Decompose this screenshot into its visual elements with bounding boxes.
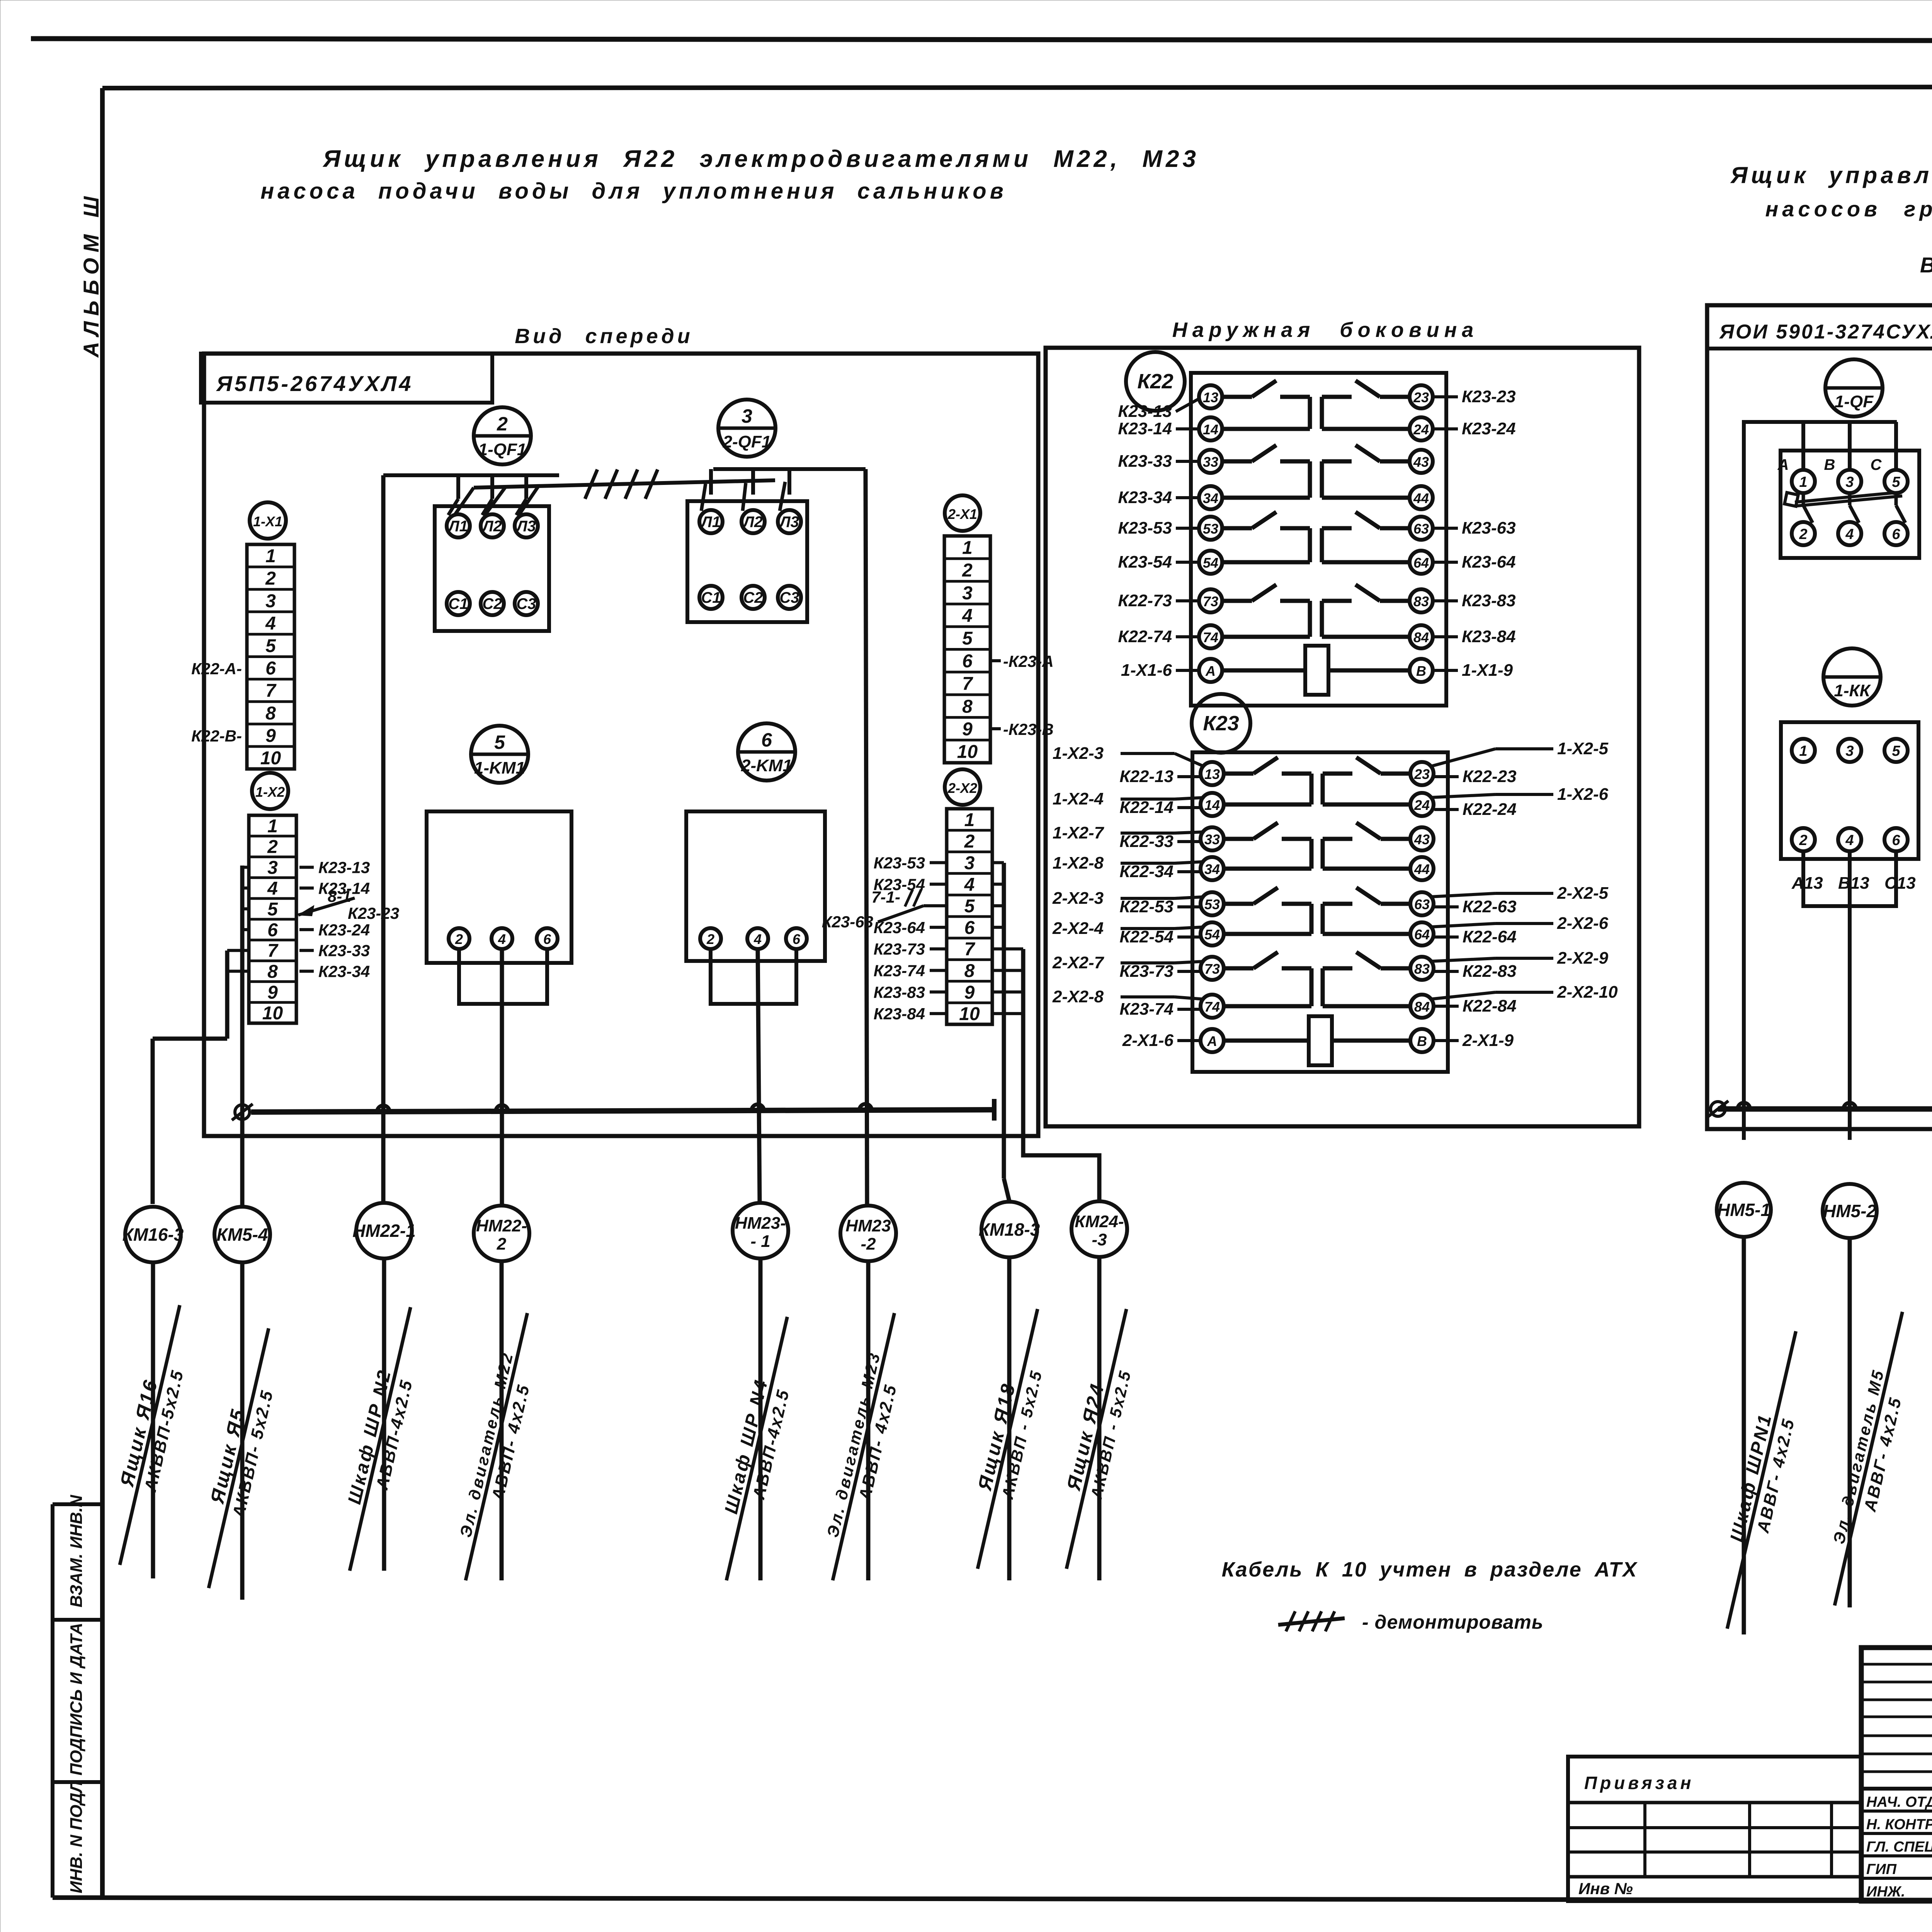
cable line below НМ22-1 <box>382 1259 386 1571</box>
wire loop under 1-KM1 <box>459 949 547 1004</box>
svg-text:К22-83: К22-83 <box>1463 962 1517 981</box>
svg-text:-2: -2 <box>861 1235 876 1253</box>
right cabinet type label box <box>1707 305 1932 349</box>
cable line below НМ5-1 <box>1742 1237 1746 1634</box>
svg-text:4: 4 <box>1845 832 1854 849</box>
left bus cable entry symbol <box>235 1105 250 1119</box>
svg-text:1-QF1: 1-QF1 <box>478 440 527 459</box>
relay К22 contact pins 73/74 and 83/84 <box>1199 589 1222 612</box>
svg-text:Я5П5-2674УХЛ4: Я5П5-2674УХЛ4 <box>216 371 413 396</box>
svg-text:К23-84: К23-84 <box>874 1005 925 1023</box>
svg-text:2: 2 <box>497 413 508 435</box>
callout circle 5 / 1-KM1 <box>471 726 528 783</box>
svg-text:44: 44 <box>1414 861 1430 877</box>
svg-text:8: 8 <box>267 962 278 982</box>
svg-text:10: 10 <box>260 748 281 769</box>
svg-text:Кабель К 10 учтен в раздел: Кабель К 10 учтен в разделе АТХ <box>1222 1558 1638 1581</box>
svg-text:С1: С1 <box>701 589 721 606</box>
svg-text:Вид спереди: Вид спереди <box>515 325 693 348</box>
svg-text:2-Х2-5: 2-Х2-5 <box>1557 884 1609 903</box>
cable circle НМ23--2 <box>840 1206 896 1261</box>
cable line below НМ23 <box>866 1261 871 1580</box>
terminal strip 2-X1 callout circle <box>945 495 980 531</box>
wire left feed riser to 1-QF1 <box>381 475 386 1203</box>
svg-text:2-Х1-6: 2-Х1-6 <box>1122 1031 1174 1050</box>
contactor 2-KM1 terminal 6 <box>786 928 807 949</box>
terminal strip 2-X1 <box>944 536 990 763</box>
svg-text:К23-83: К23-83 <box>874 983 925 1001</box>
cable circle КМ24---3 <box>1071 1201 1127 1257</box>
svg-text:1-Х2: 1-Х2 <box>255 784 285 800</box>
wire drop 1-KK pin4 to bus <box>1848 851 1852 1140</box>
svg-text:КМ16-3: КМ16-3 <box>122 1225 184 1245</box>
svg-text:Инв №: Инв № <box>1578 1879 1633 1898</box>
svg-text:84: 84 <box>1413 629 1429 645</box>
svg-text:Л1: Л1 <box>447 518 468 535</box>
svg-text:1: 1 <box>267 816 278 837</box>
svg-text:ИНЖ.: ИНЖ. <box>1866 1884 1905 1900</box>
svg-text:2-Х2-4: 2-Х2-4 <box>1052 919 1104 938</box>
svg-text:2: 2 <box>265 568 276 589</box>
side stamp label ВЗАМ. ИНВ. N <box>67 1495 86 1607</box>
svg-text:К22-53: К22-53 <box>1119 897 1173 916</box>
svg-text:К22-74: К22-74 <box>1118 627 1172 646</box>
svg-text:43: 43 <box>1414 832 1430 847</box>
cable circle КМ5-4 <box>214 1207 270 1262</box>
svg-text:53: 53 <box>1204 896 1220 912</box>
label 8-1 К23-23 with arrow at 1-X2 cell 5 <box>298 898 355 915</box>
svg-text:2-Х1-9: 2-Х1-9 <box>1462 1031 1514 1050</box>
svg-text:73: 73 <box>1203 594 1218 609</box>
svg-text:К23-24: К23-24 <box>318 921 370 939</box>
left cabinet outline <box>204 354 1038 1136</box>
svg-text:К22-54: К22-54 <box>1119 927 1173 946</box>
svg-text:24: 24 <box>1414 797 1430 813</box>
svg-text:2-KM1: 2-KM1 <box>741 756 792 775</box>
svg-text:23: 23 <box>1414 766 1430 782</box>
svg-text:Л1: Л1 <box>700 514 721 531</box>
svg-text:33: 33 <box>1204 832 1220 847</box>
svg-text:1-QF: 1-QF <box>1835 392 1874 411</box>
relay К23 contact pins 33/34 and 43/44 <box>1201 827 1224 850</box>
svg-text:С3: С3 <box>516 595 536 612</box>
svg-text:Л2: Л2 <box>742 514 763 531</box>
annex table Привязан <box>1568 1757 1861 1901</box>
cable line below КМ5-4 <box>240 1262 245 1600</box>
svg-text:К23-14: К23-14 <box>1118 419 1172 438</box>
wire lead-in blades 1-QF1 <box>448 499 458 515</box>
svg-text:К23-34: К23-34 <box>318 963 370 981</box>
svg-text:КМ24-: КМ24- <box>1075 1212 1124 1231</box>
side stamp column boxes <box>51 1504 54 1898</box>
sheet outer top border line <box>31 39 1932 41</box>
svg-text:2-Х2-6: 2-Х2-6 <box>1557 914 1609 933</box>
cable line below КМ16-3 <box>151 1262 155 1578</box>
cable circle КМ18-3 <box>981 1202 1037 1257</box>
svg-text:1-Х2-4: 1-Х2-4 <box>1053 789 1104 808</box>
svg-text:2-Х2-3: 2-Х2-3 <box>1052 889 1104 908</box>
relay К22 body <box>1191 373 1446 706</box>
svg-text:1-Х1: 1-Х1 <box>253 514 282 529</box>
contactor 2-KM1 terminal 2 <box>700 928 721 949</box>
svg-text:2-Х2-10: 2-Х2-10 <box>1557 983 1618 1002</box>
cable label Ящик Я5 АКВВП- 5х2.5 <box>187 1323 290 1593</box>
wire 2-X2 rows to КМ24-3 riser <box>992 947 1023 951</box>
breaker 1-QF1 terminal С3 <box>515 592 538 615</box>
contactor 1-KM1 terminal 6 <box>537 928 558 949</box>
svg-text:ГИП: ГИП <box>1866 1861 1897 1878</box>
svg-text:К22-73: К22-73 <box>1118 591 1172 610</box>
cable label Шкаф ШРN1 АВВГ- 4х2.5 <box>1707 1327 1818 1634</box>
svg-text:А: А <box>1777 456 1789 473</box>
svg-text:2: 2 <box>1799 832 1807 849</box>
svg-text:8: 8 <box>964 961 975 981</box>
relay К23 external labels right <box>1434 775 1459 778</box>
left bus end tick <box>992 1099 997 1121</box>
svg-text:4: 4 <box>962 605 973 626</box>
label К23-В at 2-X1 cell 9 <box>990 727 1001 730</box>
cable line below НМ23- <box>759 1259 763 1580</box>
cable line below КМ18-3 <box>1007 1257 1012 1580</box>
svg-text:4: 4 <box>498 931 506 947</box>
svg-text:С2: С2 <box>743 589 763 606</box>
contactor 2-KM1 body <box>686 811 825 961</box>
svg-text:13: 13 <box>1203 389 1218 405</box>
svg-text:К23-23: К23-23 <box>348 904 399 922</box>
svg-text:83: 83 <box>1414 961 1430 977</box>
svg-text:14: 14 <box>1203 422 1218 437</box>
svg-text:2: 2 <box>706 931 714 947</box>
svg-text:2-Х2-8: 2-Х2-8 <box>1052 987 1104 1006</box>
svg-text:Ящик управления Я5 электродви: Ящик управления Я5 электродвигателями М5… <box>1730 162 1932 188</box>
svg-text:74: 74 <box>1204 999 1220 1015</box>
callout circle 3 / 2-QF1 <box>718 400 776 457</box>
svg-text:НАЧ. ОТД: НАЧ. ОТД <box>1866 1794 1932 1810</box>
contactor 1-KM1 body <box>427 811 571 963</box>
svg-text:К23-13: К23-13 <box>318 859 370 877</box>
svg-text:насосов грязной промывной в: насосов грязной промывной воды <box>1765 197 1932 221</box>
svg-text:1: 1 <box>1799 743 1807 759</box>
cable line below НМ22- <box>500 1261 504 1580</box>
wire 1-X2 rows to КМ5-4 riser <box>242 866 249 869</box>
title block small grid rows <box>1861 1663 1932 1666</box>
svg-text:К23-13: К23-13 <box>1118 402 1172 421</box>
svg-text:К22-23: К22-23 <box>1463 767 1517 786</box>
svg-text:10: 10 <box>959 1004 980 1024</box>
svg-text:1-Х2-7: 1-Х2-7 <box>1053 823 1105 842</box>
breaker 1-QF1 terminal Л1 <box>447 514 470 537</box>
terminal strip 1-X2 <box>249 815 296 1023</box>
breaker 2-QF1 body <box>687 501 807 622</box>
svg-text:83: 83 <box>1413 594 1429 609</box>
thermal relay 1-KK body <box>1781 722 1918 859</box>
breaker 1-QF1 terminal С1 <box>447 592 470 615</box>
relay К23 coil pins А/В <box>1201 1029 1224 1052</box>
svg-text:3: 3 <box>962 583 973 604</box>
breaker 2-QF1 terminal С1 <box>699 586 723 609</box>
svg-text:К22-64: К22-64 <box>1463 927 1517 946</box>
svg-text:Л3: Л3 <box>515 518 536 535</box>
cable line below НМ5-2 <box>1848 1238 1852 1607</box>
svg-text:К23-53: К23-53 <box>1118 519 1172 537</box>
breaker 2-QF1 terminal С2 <box>742 586 765 609</box>
cable label Эл. двигатель М22 АВВП- 4х2.5 <box>447 1309 549 1585</box>
svg-text:С3: С3 <box>779 589 799 606</box>
svg-text:- демонтировать: - демонтировать <box>1362 1611 1544 1633</box>
cable circle НМ22-1 <box>356 1203 412 1259</box>
svg-text:54: 54 <box>1204 927 1220 942</box>
svg-text:Н. КОНТР.: Н. КОНТР. <box>1866 1816 1932 1833</box>
label К23-А at 2-X1 cell 6 <box>990 659 1001 662</box>
svg-text:8: 8 <box>962 696 973 717</box>
relay К22 contact pins 33/34 and 43/44 <box>1199 450 1222 473</box>
svg-text:1: 1 <box>265 546 276 566</box>
wire loop under 1-KK <box>1803 851 1896 906</box>
wire loop under 2-KM1 <box>711 949 796 1004</box>
side stamp label ИНВ. N ПОДЛ <box>67 1781 86 1893</box>
svg-text:К23-54: К23-54 <box>1118 553 1172 571</box>
svg-text:К22-14: К22-14 <box>1119 798 1173 817</box>
svg-text:2-Х1: 2-Х1 <box>947 506 977 522</box>
relay К23 body <box>1192 752 1448 1072</box>
wire 1-X2 rows to КМ16-3 riser <box>227 949 249 952</box>
svg-text:1-КК: 1-КК <box>1834 681 1871 700</box>
svg-text:6: 6 <box>1892 526 1900 543</box>
outer side-panel box <box>1046 348 1639 1126</box>
svg-text:Вид спереди: Вид спереди <box>1920 253 1932 277</box>
right cabinet bus bar <box>1718 1106 1932 1112</box>
svg-text:7: 7 <box>964 939 976 960</box>
title block signature rows <box>1861 1810 1932 1813</box>
svg-text:КМ5-4: КМ5-4 <box>216 1225 268 1245</box>
inner frame bottom line <box>53 1898 1932 1901</box>
svg-text:В: В <box>1416 663 1426 679</box>
svg-text:К22-84: К22-84 <box>1463 997 1517 1015</box>
wire 2-X2 rows to КМ18-3 riser <box>992 861 1004 864</box>
svg-text:2-Х2-7: 2-Х2-7 <box>1052 953 1105 972</box>
svg-text:64: 64 <box>1413 555 1429 571</box>
contactor 1-KM1 terminal 2 <box>449 928 469 949</box>
svg-text:НМ23: НМ23 <box>845 1216 891 1235</box>
callout circle 1-KK <box>1823 648 1881 706</box>
svg-text:5: 5 <box>265 636 276 656</box>
svg-text:К22-В-: К22-В- <box>191 727 242 745</box>
svg-text:10: 10 <box>262 1003 283 1024</box>
relay К23 callout circle <box>1192 694 1250 753</box>
svg-text:А13: А13 <box>1791 874 1823 893</box>
svg-text:ВЗАМ. ИНВ.N: ВЗАМ. ИНВ.N <box>67 1495 86 1607</box>
svg-text:14: 14 <box>1204 797 1220 813</box>
svg-text:3: 3 <box>964 853 975 874</box>
wire drop 2-KM1 pin4 to bus <box>758 949 760 1203</box>
wire jumper to be dismantled with slash marks <box>474 480 775 488</box>
svg-text:73: 73 <box>1204 961 1220 977</box>
svg-text:9: 9 <box>267 982 278 1003</box>
svg-text:Наружная боковина: Наружная боковина <box>1172 318 1479 342</box>
svg-text:6: 6 <box>793 931 801 947</box>
svg-text:С13: С13 <box>1884 874 1916 893</box>
relay К23 contact pins 13/14 and 23/24 <box>1201 762 1224 785</box>
svg-text:К23-63: К23-63 <box>822 913 873 931</box>
svg-text:1-Х1-6: 1-Х1-6 <box>1121 661 1172 680</box>
relay К22 callout circle <box>1126 352 1185 411</box>
wire lead-in blades 2-QF1 <box>701 484 706 511</box>
svg-text:КМ18-3: КМ18-3 <box>979 1219 1040 1240</box>
svg-text:10: 10 <box>957 742 978 762</box>
svg-text:13: 13 <box>1204 766 1220 782</box>
terminal strip 2-X2 callout circle <box>945 769 980 805</box>
right cabinet outline <box>1707 305 1932 1129</box>
svg-text:К22: К22 <box>1137 370 1173 393</box>
wire 1-QF1 supply bracket <box>383 473 559 477</box>
svg-text:К22-А-: К22-А- <box>191 660 242 678</box>
left cabinet type label box <box>201 354 492 403</box>
svg-text:К22-13: К22-13 <box>1119 767 1173 786</box>
title block outline <box>1861 1648 1932 1901</box>
svg-text:8: 8 <box>265 703 276 724</box>
svg-text:К23-64: К23-64 <box>1462 553 1516 571</box>
relay К22 external labels right <box>1434 395 1458 398</box>
svg-text:ЯОИ 5901-3274СУХЛ4: ЯОИ 5901-3274СУХЛ4 <box>1719 321 1932 343</box>
contactor 1-KM1 terminal 4 <box>492 928 512 949</box>
svg-text:- 1: - 1 <box>750 1232 770 1251</box>
cable label Эл. двигатель М5 АВВГ- 4х2.5 <box>1816 1308 1924 1611</box>
svg-text:-3: -3 <box>1092 1230 1107 1249</box>
svg-text:С: С <box>1871 456 1882 473</box>
svg-text:4: 4 <box>1845 526 1854 543</box>
right bus junction hooks <box>1738 1103 1750 1109</box>
svg-text:ПОДПИСЬ И ДАТА: ПОДПИСЬ И ДАТА <box>67 1623 86 1776</box>
svg-text:63: 63 <box>1413 521 1429 537</box>
svg-text:6: 6 <box>265 658 276 679</box>
cable label Ящик Я18 АКВВП - 5х2.5 <box>956 1304 1059 1574</box>
cable label Шкаф ШР N4 АВВП-4х2.5 <box>706 1312 809 1585</box>
svg-text:Привязан: Привязан <box>1584 1773 1694 1793</box>
svg-text:К23-73: К23-73 <box>874 940 925 958</box>
svg-text:К23-63: К23-63 <box>1462 519 1516 537</box>
svg-text:ИНВ. N ПОДЛ: ИНВ. N ПОДЛ <box>67 1781 86 1893</box>
svg-text:1-Х2-5: 1-Х2-5 <box>1557 739 1609 758</box>
svg-text:К23-73: К23-73 <box>1119 962 1173 981</box>
svg-text:НМ5-2: НМ5-2 <box>1823 1201 1876 1221</box>
wire drop 1-KM1 pin4 to bus <box>500 949 504 1206</box>
cable label Ящик Я16 АКВВП-5х2.5 <box>98 1300 201 1570</box>
breaker 1-QF1 body <box>435 506 549 631</box>
svg-text:К23-23: К23-23 <box>1462 387 1516 406</box>
svg-text:АЛЬБОМ Ш: АЛЬБОМ Ш <box>79 191 103 358</box>
svg-text:44: 44 <box>1413 490 1429 506</box>
svg-text:2: 2 <box>964 832 975 852</box>
cable circle КМ16-3 <box>125 1207 181 1262</box>
cable circle НМ5-1 <box>1717 1183 1771 1237</box>
svg-text:НМ22-: НМ22- <box>476 1216 527 1235</box>
right bus cable entry symbol <box>1711 1102 1725 1116</box>
svg-text:К23-33: К23-33 <box>318 942 370 960</box>
svg-text:24: 24 <box>1413 422 1429 437</box>
svg-text:5: 5 <box>494 731 505 753</box>
svg-text:9: 9 <box>962 719 973 740</box>
callout circle 6 / 2-KM1 <box>738 723 795 781</box>
breaker 1-QF1 terminal Л3 <box>515 514 538 537</box>
svg-text:53: 53 <box>1203 521 1218 537</box>
svg-text:НМ22-1: НМ22-1 <box>352 1221 416 1241</box>
wire right feed riser from 2-QF1 <box>866 469 867 1206</box>
svg-text:К23-33: К23-33 <box>1118 452 1172 471</box>
svg-text:1-Х2-8: 1-Х2-8 <box>1053 854 1104 872</box>
svg-text:6: 6 <box>1892 832 1900 849</box>
svg-text:3: 3 <box>265 591 276 611</box>
side stamp label ПОДПИСЬ И ДАТА <box>67 1623 86 1776</box>
svg-text:9: 9 <box>265 726 276 746</box>
svg-text:2-Х2: 2-Х2 <box>947 780 977 796</box>
cable label Ящик Я24 АКВВП - 5х2.5 <box>1045 1304 1148 1574</box>
cable label Эл. двигатель М23 АВВП- 4х2.5 <box>814 1309 916 1585</box>
svg-text:А: А <box>1205 663 1216 679</box>
svg-text:2-QF1: 2-QF1 <box>723 432 771 451</box>
svg-text:6: 6 <box>543 931 551 947</box>
inner frame top line <box>102 87 1932 88</box>
svg-text:НМ5-1: НМ5-1 <box>1717 1200 1770 1220</box>
note демонтировать legend <box>1278 1618 1345 1625</box>
svg-text:К22-33: К22-33 <box>1119 832 1173 851</box>
relay К22 coil pins А/В <box>1199 659 1222 682</box>
svg-text:1-KM1: 1-KM1 <box>474 759 525 777</box>
svg-text:К23-34: К23-34 <box>1118 488 1172 507</box>
svg-text:1: 1 <box>1799 474 1807 490</box>
svg-text:5: 5 <box>1892 474 1900 490</box>
wire 2-QF1 supply bracket <box>713 467 866 471</box>
svg-text:33: 33 <box>1203 454 1218 470</box>
svg-text:1-Х2-3: 1-Х2-3 <box>1053 744 1104 763</box>
svg-text:3: 3 <box>742 405 752 427</box>
svg-text:8-1: 8-1 <box>328 887 351 905</box>
svg-text:К23-74: К23-74 <box>874 962 925 980</box>
breaker 2-QF1 terminal Л2 <box>742 510 765 533</box>
svg-text:9: 9 <box>964 982 975 1003</box>
labels at 2-X2 left side <box>930 861 947 864</box>
breaker 1-QF1 terminal Л2 <box>481 514 504 537</box>
svg-text:6: 6 <box>267 920 278 940</box>
margin label АЛЬБОМ III <box>79 191 103 358</box>
svg-text:НМ23-: НМ23- <box>735 1214 786 1233</box>
svg-text:6: 6 <box>962 651 973 672</box>
svg-text:К23-74: К23-74 <box>1119 1000 1173 1019</box>
svg-text:43: 43 <box>1413 454 1429 470</box>
svg-text:А: А <box>1207 1033 1217 1049</box>
svg-text:5: 5 <box>267 899 278 920</box>
svg-text:7: 7 <box>962 674 973 694</box>
svg-text:К23-53: К23-53 <box>874 854 925 872</box>
svg-text:Л3: Л3 <box>779 514 799 531</box>
svg-text:4: 4 <box>267 878 278 899</box>
svg-text:Ящик управления Я22 электро: Ящик управления Я22 электродвигателями М… <box>322 146 1199 172</box>
relay К22 contact pins 53/54 and 63/64 <box>1199 517 1222 540</box>
breaker 2-QF1 terminal Л1 <box>699 510 723 533</box>
wire 1-QF supply bracket and riser <box>1744 422 1897 1140</box>
breaker 2-QF1 terminal С3 <box>778 586 801 609</box>
cable circle НМ5-2 <box>1823 1184 1877 1238</box>
breaker 1-QF body with poles <box>1781 451 1919 558</box>
left cabinet bus bar <box>251 1110 994 1112</box>
callout circle 2 / 1-QF1 <box>474 407 531 464</box>
svg-text:4: 4 <box>753 931 762 947</box>
svg-text:23: 23 <box>1413 389 1429 405</box>
relay К23 coil <box>1309 1016 1332 1065</box>
svg-text:К23-24: К23-24 <box>1462 419 1516 438</box>
svg-text:насоса подачи воды для упл: насоса подачи воды для уплотнения сальни… <box>260 179 1007 204</box>
breaker 2-QF1 terminal Л3 <box>778 510 801 533</box>
cable line below КМ24- <box>1097 1257 1102 1580</box>
